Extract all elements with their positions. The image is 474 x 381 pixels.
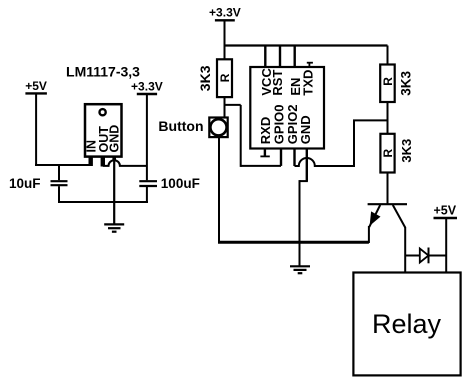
svg-text:Relay: Relay: [372, 309, 442, 339]
svg-text:+5V: +5V: [434, 204, 457, 218]
svg-text:+5V: +5V: [25, 79, 47, 93]
svg-text:3K3: 3K3: [398, 71, 413, 96]
svg-text:LM1117-3,3: LM1117-3,3: [66, 64, 140, 80]
svg-text:R: R: [218, 73, 232, 82]
svg-text:3K3: 3K3: [399, 139, 414, 163]
svg-text:R: R: [381, 149, 395, 158]
svg-text:10uF: 10uF: [9, 176, 41, 191]
svg-text:Button: Button: [158, 118, 203, 134]
svg-text:+3.3V: +3.3V: [131, 80, 163, 94]
svg-text:100uF: 100uF: [161, 176, 200, 191]
svg-text:GND: GND: [298, 115, 313, 144]
svg-text:3K3: 3K3: [197, 65, 213, 91]
svg-text:+3.3V: +3.3V: [209, 6, 241, 20]
svg-text:TXD: TXD: [301, 70, 316, 96]
svg-text:RST: RST: [270, 70, 285, 96]
svg-text:R: R: [381, 77, 395, 86]
svg-text:GND: GND: [107, 125, 121, 153]
